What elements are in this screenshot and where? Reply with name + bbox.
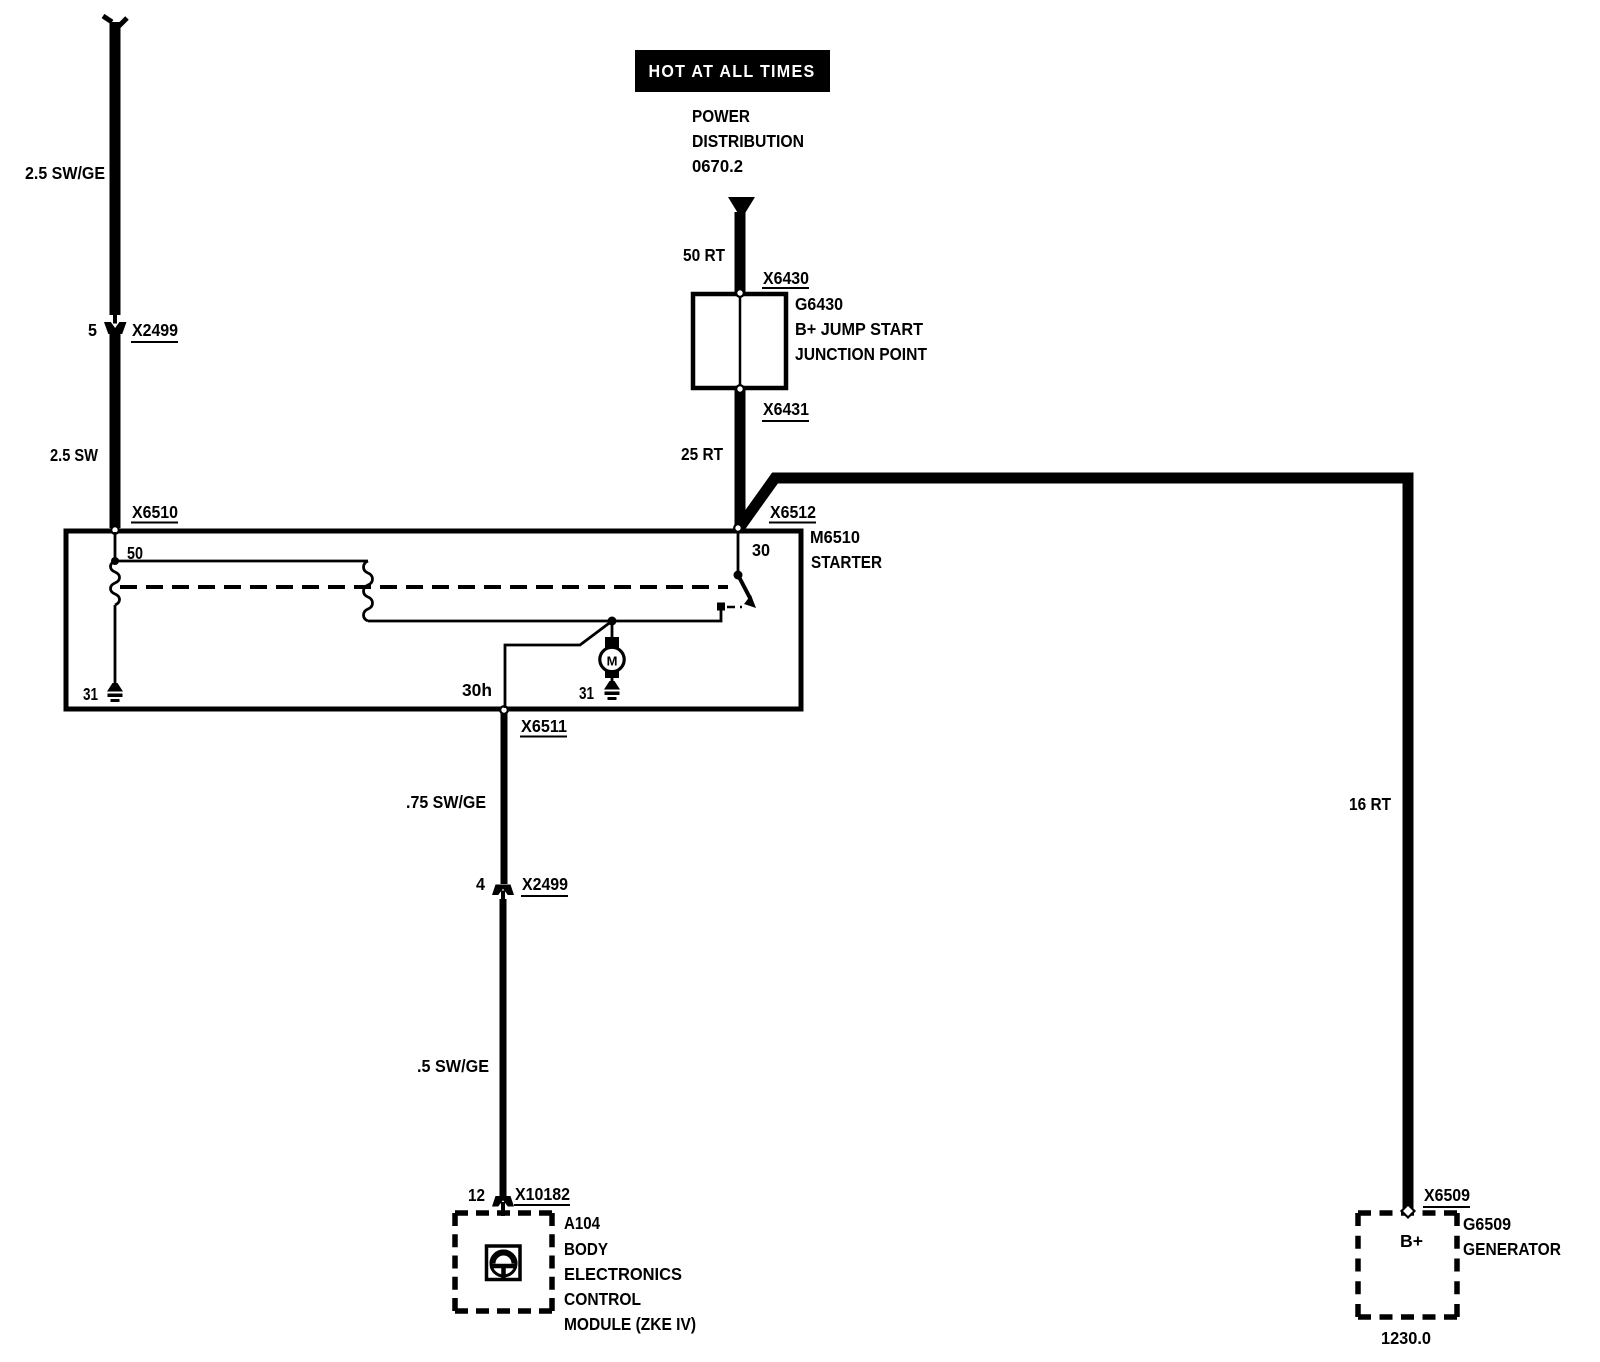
svg-text:A104: A104: [564, 1213, 600, 1233]
svg-text:2.5 SW: 2.5 SW: [50, 445, 98, 465]
svg-text:BODY: BODY: [564, 1239, 608, 1259]
svg-text:4: 4: [476, 874, 485, 894]
svg-text:12: 12: [468, 1185, 485, 1205]
svg-text:0670.2: 0670.2: [692, 156, 743, 176]
svg-text:X2499: X2499: [522, 874, 568, 894]
svg-text:STARTER: STARTER: [811, 552, 882, 572]
svg-text:X6512: X6512: [770, 502, 816, 522]
svg-text:X6509: X6509: [1424, 1185, 1470, 1205]
svg-text:G6430: G6430: [795, 294, 843, 314]
svg-text:.75 SW/GE: .75 SW/GE: [406, 792, 486, 812]
svg-text:M: M: [607, 654, 618, 669]
svg-text:B+ JUMP START: B+ JUMP START: [795, 319, 923, 339]
svg-text:2.5 SW/GE: 2.5 SW/GE: [25, 163, 105, 183]
svg-text:5: 5: [88, 320, 97, 340]
svg-text:.5 SW/GE: .5 SW/GE: [417, 1056, 489, 1076]
svg-text:X2499: X2499: [132, 320, 178, 340]
svg-text:CONTROL: CONTROL: [564, 1289, 641, 1309]
svg-text:1230.0: 1230.0: [1381, 1328, 1431, 1348]
svg-text:X10182: X10182: [515, 1184, 570, 1204]
svg-text:X6430: X6430: [763, 268, 809, 288]
svg-text:ELECTRONICS: ELECTRONICS: [564, 1264, 682, 1284]
svg-text:30h: 30h: [462, 680, 492, 700]
svg-text:30: 30: [752, 540, 770, 560]
svg-text:JUNCTION POINT: JUNCTION POINT: [795, 344, 927, 364]
svg-text:X6511: X6511: [521, 716, 567, 736]
svg-text:16 RT: 16 RT: [1349, 794, 1391, 814]
svg-text:X6431: X6431: [763, 399, 809, 419]
svg-text:GENERATOR: GENERATOR: [1463, 1239, 1561, 1259]
svg-text:X6510: X6510: [132, 502, 178, 522]
svg-text:DISTRIBUTION: DISTRIBUTION: [692, 131, 804, 151]
svg-text:50 RT: 50 RT: [683, 245, 725, 265]
svg-text:B+: B+: [1400, 1231, 1423, 1251]
svg-text:G6509: G6509: [1463, 1214, 1511, 1234]
svg-text:HOT AT ALL TIMES: HOT AT ALL TIMES: [649, 61, 816, 81]
svg-text:POWER: POWER: [692, 106, 750, 126]
svg-text:M6510: M6510: [810, 527, 860, 547]
svg-text:MODULE (ZKE IV): MODULE (ZKE IV): [564, 1314, 696, 1334]
svg-text:31: 31: [579, 683, 594, 703]
svg-text:25 RT: 25 RT: [681, 444, 723, 464]
svg-text:31: 31: [83, 684, 98, 704]
